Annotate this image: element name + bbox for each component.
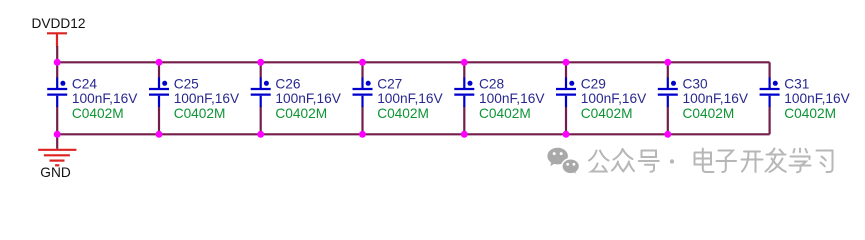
capacitor C26 xyxy=(251,62,271,134)
ground symbol xyxy=(38,150,76,166)
svg-text:100nF,16V: 100nF,16V xyxy=(784,91,850,106)
svg-text:100nF,16V: 100nF,16V xyxy=(581,91,647,106)
svg-text:C0402M: C0402M xyxy=(275,106,327,121)
junction top C25 xyxy=(156,59,163,66)
junction bottom C27 xyxy=(359,131,366,138)
wire ground stem xyxy=(56,134,58,149)
char gong xyxy=(589,151,597,161)
svg-text:C0402M: C0402M xyxy=(377,106,429,121)
capacitor C25 xyxy=(149,62,169,134)
junction bottom C24 xyxy=(54,131,61,138)
svg-text:100nF,16V: 100nF,16V xyxy=(479,91,545,106)
svg-text:100nF,16V: 100nF,16V xyxy=(275,91,341,106)
svg-text:C0402M: C0402M xyxy=(479,106,531,121)
svg-text:100nF,16V: 100nF,16V xyxy=(683,91,749,106)
junction bottom C29 xyxy=(563,131,570,138)
svg-text:C0402M: C0402M xyxy=(784,106,836,121)
svg-text:C24: C24 xyxy=(72,76,97,91)
svg-text:100nF,16V: 100nF,16V xyxy=(377,91,443,106)
wire power stem xyxy=(56,46,58,62)
char dian xyxy=(702,149,704,167)
middle dot xyxy=(670,159,674,163)
capacitor C29 xyxy=(556,62,576,134)
junction bottom C30 xyxy=(664,131,671,138)
svg-text:C31: C31 xyxy=(784,76,809,91)
junction top C29 xyxy=(563,59,570,66)
junction top C28 xyxy=(461,59,468,66)
svg-text:C30: C30 xyxy=(683,76,708,91)
capacitor C27 xyxy=(353,62,373,134)
svg-text:C27: C27 xyxy=(377,76,402,91)
junction top C24 xyxy=(54,59,61,66)
wire top rail DVDD12 xyxy=(57,61,769,63)
junction bottom C25 xyxy=(156,131,163,138)
svg-text:C29: C29 xyxy=(581,76,606,91)
svg-text:C28: C28 xyxy=(479,76,504,91)
svg-text:C0402M: C0402M xyxy=(72,106,124,121)
char xue xyxy=(794,149,795,153)
svg-text:100nF,16V: 100nF,16V xyxy=(174,91,240,106)
junction bottom C26 xyxy=(257,131,264,138)
svg-text:C26: C26 xyxy=(275,76,300,91)
capacitor C31 xyxy=(760,62,780,134)
svg-text:DVDD12: DVDD12 xyxy=(32,16,86,31)
junction bottom C28 xyxy=(461,131,468,138)
char hao xyxy=(642,151,657,158)
char xi xyxy=(817,151,833,173)
junction top C30 xyxy=(664,59,671,66)
svg-text:C0402M: C0402M xyxy=(174,106,226,121)
svg-text:C25: C25 xyxy=(174,76,199,91)
junction top C26 xyxy=(257,59,264,66)
svg-text:C0402M: C0402M xyxy=(581,106,633,121)
svg-text:C0402M: C0402M xyxy=(683,106,735,121)
svg-text:100nF,16V: 100nF,16V xyxy=(72,91,138,106)
svg-text:GND: GND xyxy=(40,165,71,180)
char kai xyxy=(744,151,760,153)
char zi xyxy=(719,151,734,158)
capacitor C24 xyxy=(47,62,67,134)
power port DVDD12 symbol xyxy=(47,33,67,47)
capacitor C28 xyxy=(454,62,474,134)
char fa xyxy=(770,149,775,155)
capacitor C30 xyxy=(658,62,678,134)
char zhong xyxy=(614,149,623,160)
wire bottom rail GND xyxy=(57,133,769,135)
watermark wechat icon xyxy=(547,148,579,176)
watermark text gongzhonghao dianzikaifaxuexi xyxy=(589,149,833,173)
junction top C27 xyxy=(359,59,366,66)
